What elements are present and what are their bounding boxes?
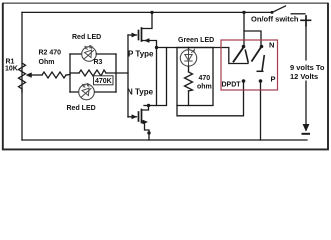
DPDT pole1 contact (245, 50, 248, 63)
DPDT pole2 foot wire (257, 70, 264, 72)
wire R2 to left bus (66, 74, 70, 77)
battery arrow head (303, 125, 309, 132)
wire green block return to DPDT (177, 82, 244, 116)
wire R3 to gate bus (106, 72, 128, 74)
svg-text:On/off switch: On/off switch (251, 15, 299, 24)
svg-text:N Type: N Type (127, 88, 154, 97)
Q2 drain lead (142, 106, 149, 111)
gate lead N (128, 116, 137, 118)
DPDT pole2 lever (252, 47, 262, 62)
svg-text:DPDT: DPDT (222, 81, 242, 88)
DPDT switch S2 red box (221, 40, 278, 90)
Q1 source lead (142, 41, 157, 48)
battery plus symbol (301, 16, 311, 26)
junction dot drain Q2 (147, 104, 150, 107)
svg-text:P: P (271, 75, 276, 84)
svg-text:10K: 10K (5, 66, 18, 73)
wire DPDT pole2 to bottom rail (260, 82, 262, 140)
svg-text:Green LED: Green LED (178, 37, 214, 44)
DPDT pole2 top terminal (260, 45, 264, 49)
Q2 channel bar (141, 110, 143, 123)
svg-text:R1: R1 (6, 59, 15, 66)
node wire to Q2 drain (144, 105, 157, 107)
wire left bus to R3 (70, 72, 79, 74)
DPDT pole1 lever (233, 47, 244, 63)
node dot output (155, 46, 158, 49)
resistor 470 ohm (185, 72, 193, 92)
value box 470K (94, 76, 114, 85)
svg-text:12 Volts: 12 Volts (290, 72, 318, 81)
svg-text:P Type: P Type (128, 49, 154, 58)
wire D2 to right bus (95, 91, 116, 93)
svg-text:Red LED: Red LED (67, 105, 96, 112)
wire resistor to box bottom (188, 91, 190, 106)
svg-text:470: 470 (199, 75, 211, 82)
switch pivot dot (271, 11, 274, 14)
DPDT pole1 top terminal (242, 45, 246, 49)
node dot drain Q1 on top rail (150, 11, 153, 14)
Q1 channel bar (141, 28, 143, 41)
junction dot top rail to DPDT (242, 11, 245, 14)
transistor Q2 N Type gate bar (138, 112, 140, 121)
wire top rail to DPDT pole1 (243, 12, 245, 46)
DPDT pole1 bottom terminal (242, 79, 246, 83)
wire switch to battery plus (291, 13, 305, 15)
red LED D1 (82, 45, 97, 61)
resistor R2 470 Ohm (42, 72, 66, 78)
green LED D3 (180, 49, 196, 66)
svg-text:R3: R3 (94, 59, 103, 66)
wire branch to DPDT pole2 (244, 31, 261, 47)
on/off switch S1 lever (272, 6, 286, 12)
wiper arrow of R1 (30, 74, 42, 76)
green LED block box (177, 48, 213, 106)
svg-text:N: N (269, 41, 274, 50)
svg-text:470K: 470K (95, 78, 112, 85)
Q1 source arrow (145, 39, 150, 43)
node link U wire (157, 48, 167, 106)
battery line (305, 26, 307, 131)
Q2 source lead (142, 122, 150, 140)
wire bottom rail (22, 139, 307, 141)
DPDT pole2 bottom terminal (259, 79, 263, 83)
gate lead P (128, 34, 137, 36)
svg-text:9 volts To: 9 volts To (290, 63, 325, 72)
red LED D2 (79, 83, 95, 99)
transistor Q1 P Type gate bar (138, 31, 140, 40)
Q1 drain lead (142, 12, 153, 28)
battery minus terminal (303, 133, 310, 135)
svg-text:Ohm: Ohm (39, 59, 55, 66)
battery voltage label background (288, 61, 325, 81)
wire to LED D2 (70, 91, 79, 93)
wire D1 to right bus (96, 53, 116, 55)
svg-text:Red LED: Red LED (72, 34, 101, 41)
left bus of LED block (69, 54, 71, 92)
wire D3 to resistor (188, 66, 190, 72)
wire to LED D1 (70, 53, 82, 55)
gate arrow P (132, 33, 137, 37)
wire top rail (22, 11, 272, 13)
gate arrow N (132, 115, 137, 119)
potentiometer R1 10K (19, 63, 26, 92)
wire output node to DPDT lever (157, 48, 249, 64)
right bus of LED block (115, 54, 117, 92)
wire left rail (21, 12, 23, 140)
resistor R3 (79, 70, 106, 76)
junction dot source Q2 (147, 131, 150, 134)
Q2 source arrow (143, 120, 148, 124)
green LED D3 stem top (188, 48, 190, 51)
svg-text:ohm: ohm (197, 84, 212, 91)
DPDT pole2 contact (262, 55, 264, 71)
svg-text:R2 470: R2 470 (39, 50, 62, 57)
gate bus wire (127, 35, 129, 117)
